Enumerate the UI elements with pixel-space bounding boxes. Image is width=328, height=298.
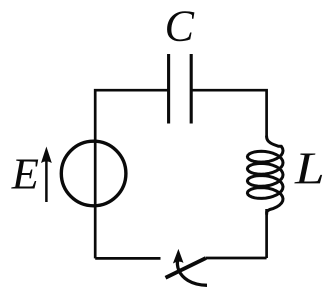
svg-text:L: L bbox=[294, 143, 325, 194]
wire right-bottom segment bbox=[265, 209, 268, 258]
emf arrow head bbox=[41, 147, 52, 164]
source E circle bbox=[61, 141, 126, 206]
switch K blade bbox=[166, 258, 207, 278]
capacitor C1 right plate bbox=[190, 54, 193, 124]
wire through source bbox=[94, 124, 97, 258]
switch arrow shaft bbox=[177, 258, 207, 285]
inductor L coil bbox=[247, 137, 283, 215]
switch arrow head bbox=[173, 249, 184, 264]
capacitor C1 left plate bbox=[167, 54, 170, 124]
wire bottom-right segment bbox=[206, 257, 267, 260]
wire bottom-left segment bbox=[95, 257, 160, 260]
svg-text:E: E bbox=[11, 149, 39, 199]
wire top-left segment bbox=[95, 90, 168, 124]
emf arrow shaft bbox=[45, 159, 48, 202]
wire top-right segment bbox=[191, 90, 266, 137]
svg-text:C: C bbox=[165, 2, 195, 51]
